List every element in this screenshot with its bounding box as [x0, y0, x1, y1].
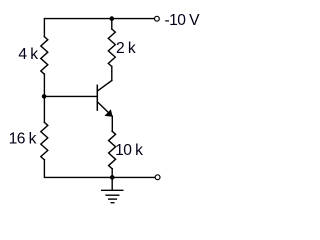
ground bar 2: [106, 194, 119, 196]
svg-text:4 k: 4 k: [18, 46, 38, 63]
wire top rail and left rail upper segment: [44, 19, 154, 37]
ground bar 4: [111, 202, 114, 204]
svg-text:10 k: 10 k: [115, 142, 143, 159]
transistor Q1 emitter lead: [97, 102, 112, 116]
wire left rail middle segment: [43, 74, 45, 122]
ground stem: [111, 177, 113, 190]
wire collector vertical: [111, 67, 113, 81]
node junction dot top (collector branch to -10 V rail): [110, 16, 115, 21]
resistor R3 2 k: [108, 29, 115, 67]
transistor Q1 collector lead: [97, 81, 111, 92]
ground bar 3: [109, 198, 117, 200]
terminal open circle -10 V: [155, 16, 160, 21]
svg-text:2 k: 2 k: [116, 40, 136, 57]
resistor R4 10 k: [109, 131, 116, 169]
wire emitter vertical: [111, 116, 113, 131]
ground bar 1: [102, 189, 123, 191]
wire right branch top: [111, 19, 113, 29]
svg-text:-10 V: -10 V: [165, 12, 201, 29]
transistor Q1 emitter arrowhead: [105, 109, 113, 117]
wire emitter to ground rail: [111, 169, 113, 178]
terminal open circle bottom right: [155, 175, 160, 180]
resistor R1 4 k: [41, 37, 48, 75]
node junction dot base: [42, 94, 47, 99]
wire base: [44, 95, 96, 97]
svg-text:16 k: 16 k: [9, 131, 37, 148]
resistor R2 16 k: [41, 122, 48, 160]
transistor Q1 base bar: [96, 85, 98, 110]
wire left rail lower segment and bottom rail: [44, 160, 154, 178]
node junction dot emitter/ground rail: [110, 175, 115, 180]
